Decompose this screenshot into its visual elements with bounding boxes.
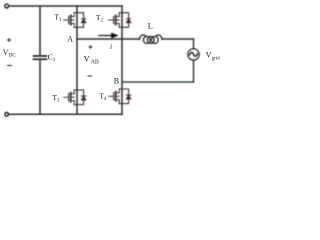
wire inductor to corner (162, 38, 194, 40)
wire node A to inductor (77, 38, 140, 40)
wire capacitor leg bottom (39, 60, 41, 115)
wire node B to grid (122, 81, 194, 83)
capacitor C1 (34, 55, 47, 57)
node V_AB plus (89, 45, 92, 48)
current arrow i (99, 35, 113, 37)
svg-text:VDC: VDC (3, 48, 17, 59)
transistor T2 (109, 13, 131, 28)
node V_DC minus (8, 65, 12, 67)
wire top rail (9, 5, 122, 7)
source V_grid (188, 49, 199, 60)
wire grid branch down (193, 39, 195, 49)
svg-text:Vgrid: Vgrid (206, 51, 220, 62)
wire left leg (76, 6, 78, 114)
inductor L (140, 35, 163, 44)
svg-text:B: B (114, 76, 119, 85)
transistor T4 (109, 89, 131, 104)
svg-text:C1: C1 (48, 53, 56, 64)
terminal top-left (5, 4, 9, 8)
svg-text:i: i (110, 42, 112, 51)
svg-text:AB: AB (91, 60, 99, 66)
node V_DC plus (7, 38, 10, 41)
wire grid branch bottom (193, 60, 195, 82)
transistor T3 (64, 90, 86, 105)
terminal bottom-left (5, 113, 9, 117)
svg-text:L: L (148, 22, 153, 31)
transistor T1 (64, 13, 86, 28)
svg-text:T2: T2 (96, 14, 103, 24)
wire capacitor leg top (39, 6, 41, 56)
wire right leg (121, 6, 123, 114)
svg-text:T4: T4 (100, 93, 107, 103)
svg-text:V: V (84, 55, 90, 64)
svg-text:A: A (67, 35, 73, 44)
svg-text:T1: T1 (55, 13, 62, 23)
node V_AB minus (88, 75, 92, 77)
svg-text:T3: T3 (53, 94, 60, 104)
wire bottom rail (9, 113, 123, 115)
